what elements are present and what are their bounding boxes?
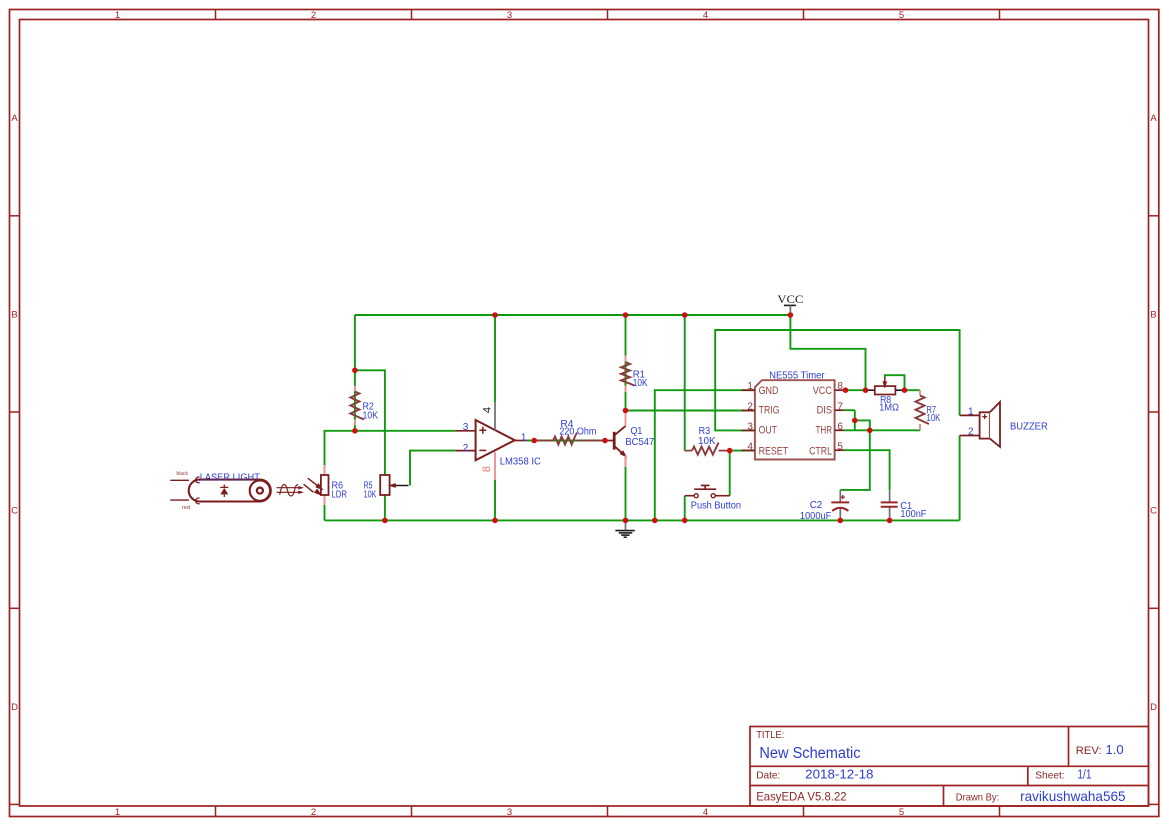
svg-text:1: 1 <box>115 807 120 818</box>
svg-text:C: C <box>11 506 18 517</box>
svg-text:4: 4 <box>481 407 493 413</box>
svg-text:A: A <box>1150 113 1157 124</box>
svg-text:8: 8 <box>837 381 843 392</box>
svg-text:1: 1 <box>115 10 120 21</box>
svg-text:Drawn By:: Drawn By: <box>956 791 999 803</box>
svg-text:red: red <box>182 505 190 511</box>
svg-text:220 Ohm: 220 Ohm <box>559 426 596 437</box>
svg-text:B: B <box>11 309 17 320</box>
svg-text:5: 5 <box>837 441 843 452</box>
svg-text:C: C <box>1150 506 1157 517</box>
svg-text:black: black <box>176 471 188 477</box>
svg-text:10K: 10K <box>363 410 379 421</box>
svg-text:TRIG: TRIG <box>759 405 780 417</box>
svg-text:1.0: 1.0 <box>1106 742 1124 757</box>
svg-text:TITLE:: TITLE: <box>756 730 784 741</box>
svg-text:RESET: RESET <box>759 446 789 458</box>
svg-text:New Schematic: New Schematic <box>759 745 860 762</box>
svg-text:VCC: VCC <box>777 292 803 306</box>
svg-text:2: 2 <box>311 10 316 21</box>
svg-text:10K: 10K <box>364 489 377 500</box>
svg-text:1/1: 1/1 <box>1077 767 1091 781</box>
svg-text:OUT: OUT <box>759 424 778 436</box>
svg-text:5: 5 <box>899 10 904 21</box>
svg-text:3: 3 <box>747 421 753 432</box>
svg-text:LASER LIGHT: LASER LIGHT <box>200 472 260 483</box>
svg-text:B: B <box>1150 309 1156 320</box>
svg-text:3: 3 <box>507 10 512 21</box>
svg-text:NE555 Timer: NE555 Timer <box>769 370 825 382</box>
svg-text:10K: 10K <box>633 378 648 389</box>
svg-text:VCC: VCC <box>813 385 832 397</box>
svg-text:CTRL: CTRL <box>809 446 832 458</box>
svg-text:2: 2 <box>463 443 469 454</box>
svg-text:THR: THR <box>816 424 833 436</box>
svg-text:EasyEDA V5.8.22: EasyEDA V5.8.22 <box>756 789 847 803</box>
svg-text:1: 1 <box>521 433 527 444</box>
svg-text:3: 3 <box>507 807 512 818</box>
svg-text:BUZZER: BUZZER <box>1010 421 1048 432</box>
svg-text:7: 7 <box>837 401 843 412</box>
svg-text:2: 2 <box>311 807 316 818</box>
svg-text:2018-12-18: 2018-12-18 <box>805 766 873 781</box>
svg-text:6: 6 <box>837 421 843 432</box>
svg-text:BC547: BC547 <box>625 437 654 448</box>
svg-text:4: 4 <box>747 441 753 452</box>
svg-text:2: 2 <box>968 426 974 437</box>
svg-text:Push Button: Push Button <box>691 501 741 512</box>
svg-text:Date:: Date: <box>756 769 780 781</box>
svg-text:GND: GND <box>759 385 779 397</box>
svg-text:C2: C2 <box>810 500 823 511</box>
svg-text:3: 3 <box>463 422 469 433</box>
svg-text:4: 4 <box>703 807 708 818</box>
svg-text:LDR: LDR <box>332 489 347 500</box>
svg-text:8: 8 <box>481 466 493 472</box>
svg-text:4: 4 <box>703 10 708 21</box>
svg-text:5: 5 <box>899 807 904 818</box>
svg-text:100nF: 100nF <box>900 509 926 520</box>
svg-text:1: 1 <box>747 381 753 392</box>
svg-text:10K: 10K <box>927 413 941 424</box>
svg-text:LM358 IC: LM358 IC <box>500 456 541 467</box>
svg-text:REV:: REV: <box>1076 745 1102 757</box>
svg-text:1MΩ: 1MΩ <box>879 403 899 414</box>
svg-text:D: D <box>11 702 18 713</box>
svg-text:Q1: Q1 <box>631 426 643 437</box>
svg-text:DIS: DIS <box>817 405 832 417</box>
svg-text:A: A <box>11 113 18 124</box>
svg-text:D: D <box>1150 702 1157 713</box>
svg-text:2: 2 <box>747 401 753 412</box>
svg-text:1000uF: 1000uF <box>800 511 831 522</box>
svg-text:Sheet:: Sheet: <box>1035 769 1064 781</box>
svg-text:1: 1 <box>968 406 974 417</box>
svg-text:10K: 10K <box>698 436 716 447</box>
svg-text:ravikushwaha565: ravikushwaha565 <box>1020 788 1126 804</box>
